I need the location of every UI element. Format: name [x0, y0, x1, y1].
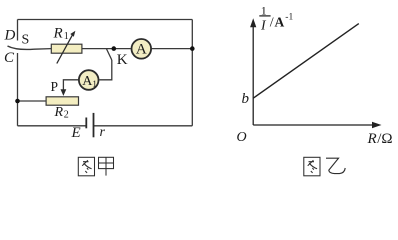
- wire left rail lower (contact C): [17, 53, 19, 126]
- svg-text:2: 2: [64, 109, 69, 120]
- node junction dot right rail: [190, 46, 195, 51]
- wire top rail: [18, 19, 193, 21]
- svg-text:/Ω: /Ω: [377, 131, 392, 147]
- svg-text:r: r: [100, 125, 106, 140]
- caption 图乙 (glyph 图): [304, 157, 320, 176]
- ammeter A1: [79, 70, 99, 90]
- graph x-axis: [253, 122, 381, 128]
- caption 图乙 (glyph 乙): [326, 158, 345, 173]
- svg-text:P: P: [51, 79, 59, 94]
- slider P arrowhead: [61, 89, 67, 96]
- label b: [242, 91, 250, 107]
- graph y-axis: [250, 18, 256, 125]
- label R2: [54, 105, 69, 120]
- label K: [117, 52, 128, 68]
- label O: [237, 130, 247, 145]
- wire right rail: [191, 20, 193, 126]
- label R1: [53, 25, 69, 42]
- wire bottom rail left: [18, 125, 87, 127]
- y-axis label 1/I /A^-1: [259, 4, 293, 34]
- svg-text:A: A: [275, 15, 285, 30]
- node junction dot left rail: [15, 99, 20, 104]
- label R/Ω: [367, 131, 393, 147]
- svg-text:I: I: [260, 19, 267, 34]
- rheostat R1 arrow: [57, 31, 76, 64]
- wire bottom rail right: [94, 125, 193, 127]
- caption 图甲 (glyph 甲): [99, 157, 114, 175]
- label r: [100, 125, 106, 140]
- label C: [4, 50, 15, 66]
- svg-text:R: R: [54, 105, 64, 120]
- switch K blade: [107, 49, 112, 60]
- resistor R2 (potentiometer box): [46, 97, 78, 105]
- svg-text:D: D: [4, 28, 16, 44]
- svg-text:A: A: [136, 42, 147, 58]
- svg-text:1: 1: [64, 31, 69, 42]
- svg-text:-1: -1: [285, 12, 293, 22]
- label S: [22, 33, 30, 48]
- svg-text:R: R: [367, 131, 377, 147]
- graph plotted line: [253, 24, 359, 99]
- svg-text:O: O: [237, 130, 247, 145]
- ammeter A: [132, 39, 152, 59]
- wire A1 to slider P: [63, 80, 78, 91]
- switch S blade: [8, 46, 35, 49]
- battery E long plate: [93, 113, 95, 137]
- wire R1 to ammeter A: [82, 48, 131, 50]
- wire K blade down to A1: [99, 60, 112, 80]
- svg-text:K: K: [117, 52, 128, 68]
- svg-text:E: E: [71, 125, 81, 141]
- node K junction dot: [112, 46, 117, 51]
- svg-text:/: /: [270, 16, 274, 31]
- svg-text:S: S: [22, 33, 30, 48]
- wire ammeter A to right rail: [152, 48, 192, 50]
- battery E short plate: [85, 118, 87, 129]
- wire junction to R2: [18, 100, 47, 102]
- wire left rail upper (contact D): [17, 20, 19, 41]
- label D: [4, 28, 16, 44]
- label P: [51, 79, 59, 94]
- svg-text:1: 1: [92, 79, 97, 89]
- resistor R1 (rheostat box): [51, 44, 82, 53]
- label E: [71, 125, 81, 141]
- wire blade to R1: [34, 48, 51, 51]
- svg-text:b: b: [242, 91, 250, 107]
- svg-text:C: C: [4, 50, 15, 66]
- svg-text:R: R: [53, 25, 63, 41]
- caption 图甲 (glyph 图): [78, 157, 94, 176]
